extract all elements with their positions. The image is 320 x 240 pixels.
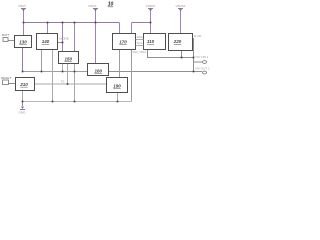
svg-text:VDDA: VDDA [88,4,98,8]
svg-text:SDA: SDA [137,35,144,39]
svg-text:TS: TS [61,80,65,84]
svg-text:BATT: BATT [2,33,10,37]
svg-text:210: 210 [19,82,28,87]
svg-text:D+/D-: D+/D- [194,34,202,38]
svg-text:220: 220 [173,39,182,44]
svg-text:VDDIO: VDDIO [146,4,156,8]
svg-text:110: 110 [147,39,155,44]
svg-text:VBAT: VBAT [18,4,26,8]
svg-text:SW_VIN1: SW_VIN1 [133,50,147,54]
svg-text:SCL: SCL [137,41,143,45]
svg-text:160: 160 [94,69,102,74]
svg-text:GND: GND [19,111,27,115]
svg-text:150: 150 [65,57,73,62]
svg-text:HV OUT 1: HV OUT 1 [196,67,210,71]
svg-text:10: 10 [108,2,114,8]
svg-text:170: 170 [119,40,127,45]
svg-text:VBUS1: VBUS1 [176,4,186,8]
svg-text:190: 190 [113,84,121,89]
svg-text:RESET: RESET [1,76,11,80]
svg-text:MODE: MODE [60,37,69,41]
svg-text:130: 130 [19,40,27,45]
svg-text:140: 140 [42,39,50,44]
svg-text:HV VIN 1: HV VIN 1 [196,55,209,59]
